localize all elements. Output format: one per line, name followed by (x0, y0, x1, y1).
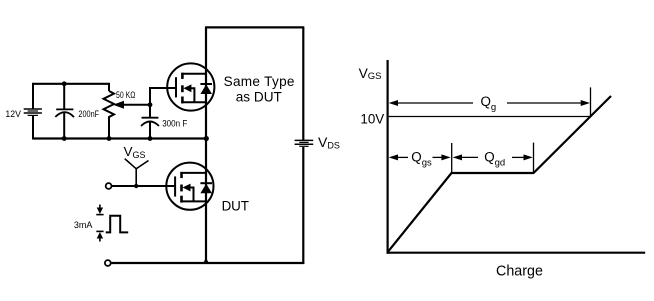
chart Qgd dimension arrow right head (524, 154, 533, 160)
wire node A down to C2 (149, 105, 151, 118)
wire top horizontal to VDS branch (205, 26, 304, 28)
potentiometer R1 wiper arrow (113, 101, 124, 109)
svg-text:50 KΩ: 50 KΩ (116, 90, 135, 101)
wire capacitor C1 bottom lead (63, 112, 65, 139)
chart 10V level line (389, 116, 590, 118)
pulse waveform (106, 216, 129, 233)
svg-text:10V: 10V (360, 111, 384, 126)
MOSFET Q2 substrate link to source (190, 188, 194, 202)
svg-text:DUT: DUT (222, 198, 249, 213)
chart Qg dimension arrow left head (389, 100, 398, 106)
node VGS probe junction (134, 184, 138, 188)
MOSFET Q2 source connection (181, 200, 207, 202)
battery V2 VDS (295, 140, 314, 146)
wire node A up to Q1 gate (150, 88, 175, 105)
wire capacitor C1 top lead (63, 84, 65, 109)
dimension top bar (96, 214, 103, 216)
chart tick at Qg end (590, 87, 592, 116)
chart Qg dimension arrow right head (581, 100, 590, 106)
MOSFET Q2 substrate arrow pointing to channel (183, 184, 191, 192)
chart y-axis (387, 60, 389, 254)
chart Qg dimension line right (507, 102, 584, 104)
wire bottom rail of gate-drive subcircuit (33, 137, 206, 139)
terminal gate input open circle (106, 183, 112, 189)
capacitor C1 200nF (55, 109, 74, 117)
chart tick at Qgd end (533, 143, 535, 172)
MOSFET Q2 drain connection (181, 172, 207, 174)
svg-text:12V: 12V (5, 109, 21, 120)
node junction bottom of R1 (107, 136, 112, 141)
MOSFET Q1 substrate arrow pointing to channel (183, 84, 191, 92)
svg-text:Charge: Charge (496, 263, 543, 279)
chart Qgd dimension line right (512, 156, 527, 158)
chart Qgs dimension arrow left head (389, 154, 398, 160)
MOSFET Q1 channel bar segments (181, 73, 184, 104)
MOSFET Q2 DUT : circle (166, 163, 213, 210)
MOSFET Q2 gate bar (174, 176, 176, 196)
MOSFET Q1 body diode triangle (200, 84, 212, 94)
wire battery V1 bottom lead (32, 116, 34, 140)
chart tick at Qgs (451, 143, 453, 173)
dimension arrow up (99, 237, 101, 242)
wire capacitor C2 bottom lead (149, 121, 151, 139)
node junction DUT source to bottom rail (204, 260, 208, 264)
svg-text:300n F: 300n F (162, 119, 187, 130)
potentiometer R1 50 KOhm body (104, 91, 115, 120)
svg-text:200nF: 200nF (78, 109, 99, 120)
dimension arrow down (99, 205, 101, 210)
MOSFET Q1 Same Type as DUT : circle (167, 63, 214, 110)
wire wiper to node A (123, 104, 150, 106)
wire main vertical drain rail (205, 27, 207, 263)
chart Qg dimension line left (396, 102, 473, 104)
wire potentiometer R1 top lead (108, 83, 110, 91)
VGS probe fork (125, 159, 149, 186)
MOSFET Q1 source connection (181, 101, 206, 103)
wire potentiometer R1 bottom lead (108, 119, 110, 140)
battery V1 12V (24, 109, 42, 115)
dimension bottom bar (96, 230, 103, 232)
svg-text:as DUT: as DUT (236, 89, 282, 104)
MOSFET Q1 drain connection (181, 73, 206, 75)
chart Qgs dimension line right (433, 156, 446, 158)
MOSFET Q2 body diode triangle (200, 184, 212, 194)
chart Qgd dimension line left (460, 156, 478, 158)
wire top rail of gate-drive subcircuit (33, 83, 109, 85)
node junction top of C1 (62, 81, 67, 86)
MOSFET Q1 substrate link to source (191, 88, 195, 102)
wire right rail VDS top lead (302, 27, 304, 140)
chart Qgs dimension line left (396, 156, 408, 158)
node junction bottom rail to drain rail (204, 136, 209, 141)
wire right rail VDS bottom lead (302, 147, 304, 264)
capacitor C2 300nF (141, 118, 159, 126)
chart x-axis (387, 252, 646, 254)
MOSFET Q1 body diode cathode bar (200, 83, 212, 85)
MOSFET Q2 body diode cathode bar (200, 182, 212, 184)
svg-text:3mA: 3mA (74, 220, 93, 231)
chart Qgd dimension arrow left head (453, 154, 462, 160)
svg-text:Same Type: Same Type (224, 74, 295, 89)
chart gate charge curve (388, 96, 611, 252)
node junction bottom of C1 (62, 136, 67, 141)
MOSFET Q2 channel bar segments (180, 172, 183, 203)
wire bottom return rail (112, 262, 305, 264)
MOSFET Q1 gate bar (175, 77, 177, 97)
terminal bottom open circle (105, 260, 111, 266)
node A wiper junction (148, 102, 153, 107)
node junction bottom of C2 (148, 136, 153, 141)
chart Qgs dimension arrow right head (441, 154, 450, 160)
wire battery V1 top lead (32, 83, 34, 109)
wire gate input to Q2 (112, 185, 174, 187)
